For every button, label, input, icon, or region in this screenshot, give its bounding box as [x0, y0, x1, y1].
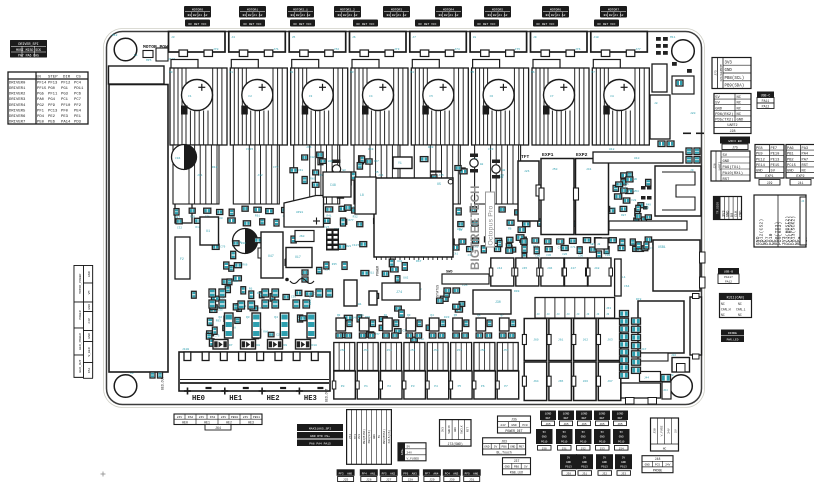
svg-text:PF7: PF7 — [425, 472, 430, 475]
svg-text:W1: W1 — [358, 303, 362, 306]
svg-text:PF15: PF15 — [37, 87, 47, 91]
svg-text:POWER: POWER — [78, 310, 82, 319]
svg-text:PE0: PE0 — [37, 121, 45, 125]
svg-text:PE12: PE12 — [756, 158, 765, 162]
svg-text:C107: C107 — [352, 244, 359, 247]
svg-text:J50: J50 — [542, 447, 547, 450]
svg-text:GND: GND — [484, 446, 489, 449]
svg-text:PE14: PE14 — [756, 164, 766, 168]
svg-text:PG10: PG10 — [541, 440, 548, 443]
svg-text:J16: J16 — [671, 354, 676, 357]
svg-text:PE15: PE15 — [771, 164, 780, 168]
svg-text:M3: M3 — [350, 71, 354, 74]
svg-text:M0: M0 — [169, 71, 173, 74]
svg-text:J31: J31 — [582, 473, 587, 476]
svg-text:HE3: HE3 — [248, 420, 254, 424]
svg-text:EXP1: EXP1 — [542, 152, 554, 158]
svg-text:24V: 24V — [407, 451, 413, 454]
svg-text:C8: C8 — [610, 95, 614, 98]
svg-text:P2: P2 — [388, 385, 392, 388]
svg-text:PD11: PD11 — [74, 87, 84, 91]
svg-text:GND: GND — [510, 446, 515, 449]
svg-text:R32: R32 — [353, 216, 358, 219]
svg-text:5V: 5V — [620, 431, 624, 434]
svg-text:J30: J30 — [449, 479, 455, 482]
svg-text:J72(SWD): J72(SWD) — [448, 442, 463, 446]
svg-text:R33: R33 — [428, 146, 434, 149]
svg-text:TP1: TP1 — [354, 434, 357, 440]
svg-text:GND: GND — [87, 333, 91, 339]
svg-text:PF3: PF3 — [339, 472, 344, 475]
svg-text:J65: J65 — [581, 423, 586, 426]
svg-text:DET: DET — [618, 417, 623, 420]
svg-text:STATUS: STATUS — [437, 285, 441, 297]
svg-text:J45: J45 — [522, 267, 528, 270]
svg-text:C4: C4 — [369, 95, 373, 98]
svg-text:Q4: Q4 — [274, 316, 278, 319]
svg-text:GND: GND — [505, 466, 510, 469]
svg-text:DRIVER6: DRIVER6 — [9, 115, 26, 119]
svg-text:J26: J26 — [366, 479, 372, 482]
svg-text:C8: C8 — [235, 280, 239, 283]
svg-text:J50: J50 — [552, 168, 558, 171]
svg-text:BED_OUT: BED_OUT — [325, 389, 329, 402]
svg-text:J48: J48 — [594, 267, 600, 270]
svg-text:5V: 5V — [407, 445, 411, 448]
svg-text:P1: P1 — [364, 385, 368, 388]
svg-text:M2: M2 — [290, 71, 294, 74]
svg-text:24V: 24V — [243, 416, 249, 419]
svg-text:Octopus Pro: Octopus Pro — [488, 206, 495, 246]
svg-text:5V: 5V — [543, 431, 547, 434]
svg-text:DRIVER2: DRIVER2 — [9, 93, 26, 97]
svg-text:R66: R66 — [242, 264, 247, 267]
svg-text:C90: C90 — [578, 254, 583, 257]
svg-text:GND: GND — [582, 461, 587, 464]
svg-text:J6: J6 — [352, 36, 356, 39]
svg-text:SWDIO: SWDIO — [448, 425, 451, 434]
svg-text:POWER_DET: POWER_DET — [505, 429, 522, 433]
svg-text:PE2: PE2 — [48, 115, 56, 119]
svg-text:U82: U82 — [403, 277, 408, 280]
svg-text:PB0: PB0 — [514, 466, 519, 469]
svg-text:J63: J63 — [501, 439, 507, 443]
svg-text:VM: VM — [87, 291, 91, 295]
svg-text:C71: C71 — [571, 246, 576, 249]
svg-text:J29: J29 — [767, 181, 773, 185]
svg-text:PA3: PA3 — [802, 147, 809, 151]
svg-text:24V: 24V — [221, 416, 227, 419]
svg-text:DRIVER7: DRIVER7 — [9, 121, 26, 125]
svg-text:1GND: 1GND — [617, 412, 624, 415]
svg-text:C27: C27 — [324, 226, 329, 229]
svg-text:J46: J46 — [547, 267, 553, 270]
svg-text:C57: C57 — [374, 160, 379, 163]
svg-text:DIODE: DIODE — [728, 332, 737, 335]
svg-text:MOSI MISO SCK: MOSI MISO SCK — [16, 48, 41, 52]
svg-text:J52: J52 — [387, 349, 393, 352]
svg-text:DC DET VCC: DC DET VCC — [597, 23, 615, 26]
svg-text:R41: R41 — [327, 214, 332, 217]
svg-text:GND: GND — [87, 271, 91, 277]
svg-text:DC DET VCC: DC DET VCC — [418, 23, 436, 26]
svg-text:CS: CS — [76, 75, 81, 79]
svg-text:J8: J8 — [473, 36, 477, 39]
svg-text:Q5: Q5 — [301, 316, 305, 319]
svg-text:DC DET VCC: DC DET VCC — [477, 23, 495, 26]
svg-text:MOTOR1: MOTOR1 — [247, 8, 258, 12]
svg-text:PG10: PG10 — [580, 440, 587, 443]
svg-text:HSW: HSW — [457, 228, 463, 231]
svg-text:J44: J44 — [644, 377, 649, 380]
svg-text:J55: J55 — [457, 349, 463, 352]
svg-text:GND: GND — [621, 461, 626, 464]
svg-text:5V: 5V — [582, 431, 586, 434]
svg-text:RST: RST — [467, 427, 470, 432]
svg-text:U18: U18 — [609, 148, 615, 151]
svg-text:MOTOR3: MOTOR3 — [391, 8, 402, 12]
svg-text:C45: C45 — [546, 254, 551, 257]
svg-text:J3: J3 — [596, 313, 600, 316]
svg-text:J53: J53 — [600, 447, 605, 450]
svg-text:J3: J3 — [537, 313, 541, 316]
svg-text:C3: C3 — [309, 95, 313, 98]
svg-text:24V: 24V — [500, 424, 505, 427]
svg-text:P3: P3 — [411, 385, 415, 388]
svg-text:J65: J65 — [599, 423, 604, 426]
svg-text:PC6: PC6 — [74, 93, 82, 97]
svg-text:DET: DET — [582, 417, 587, 420]
svg-text:USB1: USB1 — [658, 245, 666, 249]
svg-text:U54: U54 — [629, 189, 634, 192]
svg-text:PB6: PB6 — [501, 446, 506, 449]
svg-text:AN4: AN4 — [433, 472, 438, 475]
svg-text:PG13: PG13 — [565, 466, 572, 469]
svg-text:PF9: PF9 — [465, 472, 470, 475]
svg-text:GND: GND — [645, 464, 650, 467]
svg-text:DRIVER0: DRIVER0 — [9, 81, 26, 85]
svg-text:C9: C9 — [257, 292, 261, 295]
svg-text:PB7: PB7 — [519, 446, 524, 449]
svg-text:J65: J65 — [545, 423, 550, 426]
svg-text:PC4: PC4 — [74, 81, 82, 85]
svg-text:J77: J77 — [635, 48, 641, 51]
svg-text:PA1: PA1 — [87, 367, 91, 373]
svg-text:U17: U17 — [295, 255, 301, 259]
svg-text:R89: R89 — [310, 178, 315, 181]
svg-text:M5: M5 — [471, 71, 475, 74]
svg-text:J3: J3 — [547, 313, 551, 316]
svg-text:J75: J75 — [515, 48, 521, 51]
svg-text:L8: L8 — [360, 193, 364, 197]
svg-text:GND: GND — [566, 461, 571, 464]
svg-text:J9: J9 — [690, 169, 694, 172]
svg-text:J15: J15 — [438, 174, 444, 177]
svg-text:EXP1: EXP1 — [765, 175, 773, 179]
svg-text:PF0: PF0 — [61, 109, 69, 113]
svg-text:J75: J75 — [306, 146, 312, 149]
svg-text:5V: 5V — [622, 456, 626, 459]
svg-text:3V3: 3V3 — [358, 434, 361, 439]
svg-text:HE1: HE1 — [229, 395, 243, 403]
svg-text:PG13: PG13 — [601, 466, 608, 469]
svg-text:J47: J47 — [571, 267, 577, 270]
svg-text:PB8(SCL): PB8(SCL) — [725, 76, 745, 81]
svg-text:C2: C2 — [248, 95, 252, 98]
svg-text:J76: J76 — [575, 48, 581, 51]
svg-text:5V: 5V — [524, 466, 528, 469]
svg-text:U5: U5 — [375, 171, 379, 174]
svg-text:NC: NC — [737, 102, 742, 106]
svg-text:D7: D7 — [229, 344, 233, 347]
svg-text:PE3: PE3 — [61, 115, 69, 119]
svg-text:FAN+: FAN+ — [401, 448, 404, 455]
svg-text:CAN_H: CAN_H — [721, 308, 731, 312]
svg-text:PC5: PC5 — [655, 464, 660, 467]
svg-text:PC1: PC1 — [61, 98, 69, 102]
svg-text:MOTOR5: MOTOR5 — [492, 8, 503, 12]
svg-text:PA11: PA11 — [762, 99, 770, 103]
svg-text:C61: C61 — [298, 169, 303, 172]
svg-text:PB9(SDA): PB9(SDA) — [725, 84, 745, 89]
svg-text:J67: J67 — [607, 380, 613, 383]
svg-text:F1: F1 — [134, 54, 138, 57]
svg-text:C48: C48 — [330, 183, 336, 187]
svg-text:R11: R11 — [369, 272, 374, 275]
svg-text:PE6: PE6 — [48, 121, 56, 125]
svg-text:PA6: PA6 — [787, 147, 794, 151]
svg-text:J50: J50 — [340, 349, 346, 352]
svg-text:24V: 24V — [87, 318, 91, 324]
svg-text:J11: J11 — [197, 174, 203, 177]
svg-text:PF12: PF12 — [61, 81, 71, 85]
svg-text:V_FUSED: V_FUSED — [407, 457, 420, 460]
svg-text:UART1: UART1 — [718, 161, 721, 170]
svg-text:WIFI EN: WIFI EN — [729, 139, 742, 143]
svg-text:NC: NC — [721, 313, 725, 317]
svg-text:PF4: PF4 — [362, 472, 367, 475]
svg-text:DRIVER1: DRIVER1 — [9, 87, 26, 91]
svg-text:TFT: TFT — [521, 154, 530, 160]
svg-text:C115: C115 — [246, 148, 253, 151]
svg-text:R35: R35 — [332, 263, 337, 266]
svg-text:C96: C96 — [611, 208, 616, 211]
svg-text:PA7: PA7 — [802, 158, 809, 162]
svg-text:STEP: STEP — [48, 75, 58, 79]
svg-text:GND: GND — [600, 436, 605, 439]
svg-text:5V: 5V — [601, 431, 605, 434]
svg-text:M11: M11 — [670, 36, 676, 39]
svg-text:C12: C12 — [310, 156, 315, 159]
svg-text:EN: EN — [36, 75, 41, 79]
svg-text:PWR_LED: PWR_LED — [727, 339, 739, 342]
svg-text:GND: GND — [373, 434, 376, 439]
svg-text:J57: J57 — [503, 349, 509, 352]
svg-text:RJ11(CAN): RJ11(CAN) — [727, 296, 745, 300]
svg-text:M7: M7 — [591, 71, 595, 74]
svg-text:24V: 24V — [667, 428, 670, 434]
svg-text:J20: J20 — [690, 112, 696, 115]
svg-text:C81: C81 — [453, 253, 458, 256]
svg-text:C32: C32 — [177, 226, 182, 229]
svg-text:J3: J3 — [586, 313, 590, 316]
svg-text:J64: J64 — [215, 426, 221, 430]
svg-text:DC DET VCC: DC DET VCC — [356, 23, 374, 26]
svg-text:C59: C59 — [368, 148, 374, 151]
svg-text:C45: C45 — [624, 183, 629, 186]
svg-text:J62: J62 — [583, 339, 589, 342]
svg-text:J30: J30 — [495, 300, 501, 304]
svg-text:U6: U6 — [634, 178, 638, 181]
svg-text:R21: R21 — [346, 245, 351, 248]
svg-text:J3: J3 — [606, 313, 610, 316]
svg-text:24V: 24V — [199, 416, 205, 419]
svg-text:J25: J25 — [343, 479, 349, 482]
svg-text:PF13: PF13 — [48, 81, 58, 85]
svg-text:5V: 5V — [715, 96, 720, 100]
svg-text:J70: J70 — [213, 48, 219, 51]
svg-text:1GND: 1GND — [581, 412, 588, 415]
svg-text:J38: J38 — [653, 428, 656, 434]
svg-text:RST: RST — [802, 164, 809, 168]
svg-text:PA14: PA14 — [61, 121, 71, 125]
svg-text:J47: J47 — [641, 348, 647, 351]
svg-text:C64: C64 — [624, 285, 630, 288]
svg-text:U20: U20 — [644, 206, 649, 209]
svg-text:GND: GND — [542, 436, 547, 439]
svg-text:J3: J3 — [171, 36, 175, 39]
svg-text:DRIVER5: DRIVER5 — [9, 109, 26, 113]
svg-text:Q0: Q0 — [337, 314, 341, 317]
svg-text:AN5: AN5 — [453, 472, 458, 475]
svg-text:PA8 PA4 PA15: PA8 PA4 PA15 — [309, 443, 331, 446]
svg-text:P7: P7 — [504, 385, 508, 388]
svg-text:PC4: PC4 — [445, 472, 450, 475]
svg-text:DC DET VCC: DC DET VCC — [536, 23, 554, 26]
svg-text:J72: J72 — [334, 48, 340, 51]
svg-text:PB4(MISO): PB4(MISO) — [362, 429, 366, 444]
svg-text:L1: L1 — [622, 276, 626, 279]
svg-text:J9: J9 — [533, 36, 537, 39]
svg-text:PB5(MOSI): PB5(MOSI) — [382, 429, 386, 444]
svg-text:PF2: PF2 — [74, 104, 82, 108]
svg-text:5V: 5V — [563, 431, 567, 434]
svg-text:R6: R6 — [508, 228, 512, 231]
svg-text:PG0: PG0 — [48, 87, 56, 91]
svg-text:CMD: CMD — [739, 211, 743, 217]
svg-text:Q5: Q5 — [454, 314, 458, 317]
svg-text:5V: 5V — [567, 456, 571, 459]
svg-text:C79: C79 — [220, 245, 225, 248]
svg-text:J2: J2 — [597, 243, 601, 246]
svg-text:PE10: PE10 — [771, 153, 780, 157]
svg-text:MOTOR6: MOTOR6 — [550, 8, 561, 12]
svg-text:GND: GND — [602, 461, 607, 464]
svg-text:EXP2: EXP2 — [576, 152, 588, 158]
svg-text:J65: J65 — [563, 423, 568, 426]
svg-text:J8: J8 — [654, 102, 658, 105]
svg-text:AN6: AN6 — [473, 472, 478, 475]
svg-text:J53: J53 — [410, 349, 416, 352]
svg-text:PG2: PG2 — [37, 104, 45, 108]
svg-text:J65: J65 — [617, 423, 622, 426]
svg-text:V_FUSE: V_FUSE — [660, 425, 663, 436]
svg-text:J74: J74 — [396, 291, 402, 295]
svg-text:Y1: Y1 — [398, 161, 402, 165]
svg-text:DRIVER3: DRIVER3 — [9, 98, 26, 102]
svg-text:J54: J54 — [433, 349, 439, 352]
svg-text:J73: J73 — [394, 48, 400, 51]
svg-text:PA11?: PA11? — [724, 276, 733, 279]
svg-text:RGB_LED: RGB_LED — [510, 471, 523, 475]
svg-text:C6: C6 — [490, 95, 494, 98]
svg-text:J35: J35 — [511, 418, 517, 422]
svg-text:PA3: PA3 — [210, 416, 216, 419]
svg-text:GND: GND — [581, 436, 586, 439]
svg-text:J3: J3 — [566, 313, 570, 316]
svg-text:GND: GND — [454, 427, 457, 432]
svg-text:USB-B: USB-B — [724, 270, 733, 274]
svg-text:HE2: HE2 — [267, 395, 280, 403]
svg-text:M1: M1 — [229, 71, 233, 74]
svg-text:HE0: HE0 — [192, 395, 205, 403]
svg-text:M12: M12 — [112, 34, 118, 37]
svg-text:PE8: PE8 — [756, 147, 763, 151]
svg-text:BED_OUT: BED_OUT — [78, 359, 82, 372]
svg-text:J28: J28 — [408, 479, 414, 482]
svg-text:R77: R77 — [349, 219, 354, 222]
svg-text:24V: 24V — [177, 416, 183, 419]
svg-text:J32: J32 — [602, 473, 607, 476]
svg-text:J75: J75 — [732, 145, 738, 149]
svg-text:PB2: PB2 — [787, 158, 794, 162]
svg-text:SWCLK: SWCLK — [460, 425, 463, 434]
svg-text:C5: C5 — [429, 95, 433, 98]
svg-text:RST: RST — [723, 178, 731, 182]
svg-text:U54: U54 — [634, 190, 639, 193]
svg-text:J4: J4 — [801, 200, 805, 203]
svg-text:J64: J64 — [533, 380, 539, 383]
svg-text:HE1: HE1 — [204, 420, 210, 424]
svg-text:R87: R87 — [621, 214, 626, 217]
svg-text:D33: D33 — [444, 316, 450, 319]
svg-text:J60: J60 — [299, 235, 305, 238]
svg-text:PG1: PG1 — [61, 87, 69, 91]
svg-text:J100: J100 — [182, 348, 189, 351]
svg-text:J51: J51 — [363, 349, 369, 352]
svg-text:J63: J63 — [607, 339, 613, 342]
svg-text:PD9(RX3): PD9(RX3) — [778, 222, 783, 245]
svg-text:J26: J26 — [524, 170, 530, 173]
svg-text:J4: J4 — [231, 36, 235, 39]
svg-text:Q3: Q3 — [407, 314, 411, 317]
svg-text:PD4: PD4 — [37, 115, 45, 119]
svg-text:PB11: PB11 — [253, 416, 260, 419]
svg-text:PB10: PB10 — [231, 416, 238, 419]
svg-text:MAX31865_SPI: MAX31865_SPI — [309, 426, 331, 430]
svg-text:PG5: PG5 — [37, 93, 45, 97]
svg-text:5V: 5V — [715, 102, 720, 106]
svg-text:PA2: PA2 — [188, 416, 194, 419]
svg-text:PG4: PG4 — [48, 98, 56, 102]
svg-text:U47: U47 — [268, 254, 274, 258]
svg-text:PE9: PE9 — [756, 153, 763, 157]
svg-text:P4: P4 — [434, 385, 438, 388]
svg-text:5V: 5V — [603, 456, 607, 459]
svg-text:PA4: PA4 — [802, 153, 809, 157]
svg-text:U98: U98 — [397, 260, 402, 263]
svg-text:C94: C94 — [175, 157, 181, 160]
